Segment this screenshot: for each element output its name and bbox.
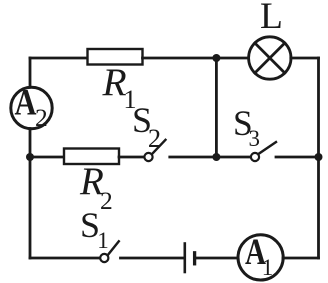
svg-text:2: 2 [100,186,113,215]
switch S1 [100,241,119,262]
resistor R2 [64,149,119,165]
lamp L [249,37,291,79]
wire A1 to right vertical [283,257,319,260]
wire top right horizontal [291,57,319,60]
wire top left horizontal [30,57,87,60]
node junction top [212,54,220,62]
node junction left middle [26,153,34,161]
wire battery to A1 [197,257,239,260]
wire top middle horizontal [143,57,249,60]
wire left bottom vertical [29,129,32,259]
svg-text:3: 3 [249,126,261,151]
wire right vertical [317,58,320,258]
svg-text:1: 1 [262,255,274,280]
svg-text:2: 2 [148,123,161,153]
switch S2 [144,140,165,161]
svg-text:1: 1 [97,228,109,253]
resistor R1 [88,49,143,65]
svg-text:2: 2 [35,103,48,132]
battery cell [185,244,195,273]
wire middle vertical branch [215,58,218,157]
wire R2 to S2 [119,156,144,159]
ammeter A1 [238,235,283,280]
node junction right middle [315,153,323,161]
wire center junction to S3 [216,156,250,159]
wire left top vertical [29,58,32,88]
wire S1 to battery [121,257,184,260]
ammeter A2 [11,87,52,128]
svg-text:A: A [15,83,37,124]
wire S3 to right vertical [276,156,319,159]
wire middle left horizontal [30,156,64,159]
svg-text:L: L [260,0,283,37]
node junction center middle [212,153,220,161]
wire bottom left horizontal [30,257,100,260]
wire S2 to center junction [170,156,217,159]
switch S3 [251,142,276,161]
